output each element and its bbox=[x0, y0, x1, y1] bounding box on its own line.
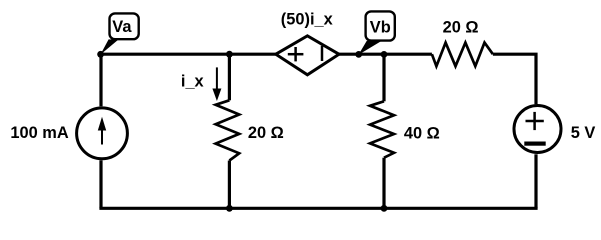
svg-text:40 Ω: 40 Ω bbox=[404, 125, 440, 143]
svg-text:i_x: i_x bbox=[181, 72, 204, 90]
svg-text:(50)i_x: (50)i_x bbox=[281, 11, 333, 29]
svg-text:5 V: 5 V bbox=[571, 124, 596, 142]
svg-text:20 Ω: 20 Ω bbox=[443, 19, 479, 37]
svg-text:100 mA: 100 mA bbox=[10, 124, 68, 142]
svg-text:Vb: Vb bbox=[370, 19, 391, 37]
svg-text:20 Ω: 20 Ω bbox=[248, 124, 284, 142]
svg-text:Va: Va bbox=[112, 18, 132, 36]
